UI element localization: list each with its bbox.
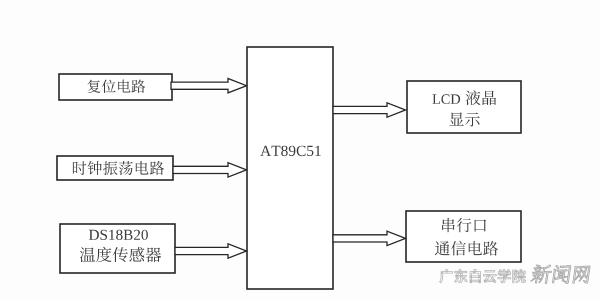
label 通信电路 — [435, 241, 498, 256]
block: LCD display box — [407, 81, 521, 133]
arrow: clock -> AT89C51 — [173, 163, 247, 177]
block: reset circuit 复位电路 box — [59, 74, 172, 100]
block: serial communication box — [406, 211, 521, 262]
block: DS18B20 temperature sensor box — [60, 224, 175, 273]
label 温度传感器 — [80, 247, 161, 262]
watermark 广东白云学院 — [440, 269, 526, 283]
arrow: AT89C51 -> serial — [333, 231, 406, 245]
label 复位电路 — [88, 80, 146, 94]
arrow: reset -> AT89C51 — [171, 79, 247, 93]
block: clock oscillator 时钟振荡电路 box — [57, 156, 173, 180]
label 时钟振荡电路 — [73, 161, 164, 175]
label AT89C51 — [260, 146, 321, 156]
watermark 新闻网 — [530, 265, 590, 284]
arrow: DS18B20 -> AT89C51 — [175, 244, 247, 258]
arrow: AT89C51 -> LCD — [333, 103, 406, 117]
block: AT89C51 MCU box — [247, 47, 333, 289]
label 串行口 — [442, 218, 486, 232]
label 显示 — [449, 112, 479, 126]
label LCD 液晶 — [433, 90, 497, 105]
label DS18B20 — [89, 230, 148, 240]
